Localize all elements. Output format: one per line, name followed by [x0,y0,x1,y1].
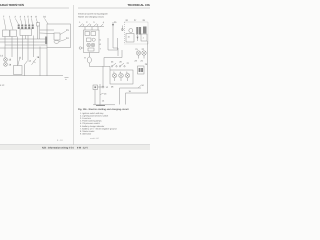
ground bar [96,104,105,106]
switch S1 [25,60,32,76]
callout 6 [31,16,33,25]
diode D3 [137,35,139,41]
control unit box E [47,24,71,48]
fuse F4 [28,25,30,30]
wire v5b [24,36,26,40]
wire v3 [17,37,19,66]
inner gauge box [87,38,92,42]
wire mid elbow [102,66,104,87]
drop wire d3 [97,27,99,31]
battery feed vertical [99,84,101,105]
diode D2 [112,21,117,28]
instrument cluster box [84,30,100,53]
wire v4 [22,36,24,61]
center page divider [73,5,75,145]
regulator box [126,34,134,43]
connector strip on E [45,37,47,45]
fuse block C [20,29,32,36]
drop wire d2 [91,27,93,31]
callout 10 [43,16,48,24]
connector box D [37,23,40,27]
fuse F1 [18,25,20,30]
wire into F upper [40,29,54,31]
ground bus bottom [0,75,63,77]
ground baseline [93,104,115,106]
svg-text:7. Battery 12 V - 60 Ah negat: 7. Battery 12 V - 60 Ah negative ground [80,127,117,130]
svg-text:3. Fuse box: 3. Fuse box [80,117,92,120]
switch S2 [32,56,40,65]
toggle switch T2 [119,61,125,67]
wire elbow from feed [113,48,118,56]
feed vertical from diode [112,28,114,48]
wire D drop 2 [38,26,40,39]
callout 5 [27,16,29,25]
lamp P2 [142,48,147,59]
cluster lamp 3 [125,71,130,81]
wire D drop 1 [36,26,38,39]
battery callout 11 [18,56,22,65]
switch S5 [93,21,98,27]
svg-text:Fig. 136 - Electric starting a: Fig. 136 - Electric starting and chargin… [78,108,129,111]
svg-text:9. Alternator: 9. Alternator [80,133,92,136]
wire bus h2 [0,41,47,43]
wire loop inner [126,93,149,105]
wire v7 [39,47,41,76]
brush terminal [121,26,123,32]
fuse F2 [21,25,23,30]
lamp L2 [4,63,8,67]
wire U loop [108,38,118,50]
callout 1 [9,16,13,30]
callout 3 [20,16,22,25]
svg-text:Starter and charging circuits: Starter and charging circuits [78,15,104,18]
solenoid box [93,85,98,90]
warning lamp L4 [91,43,95,47]
fuse F3 [25,25,27,30]
wire v6 [33,36,35,58]
svg-text:9 - 10: 9 - 10 [57,139,63,142]
svg-text:9 W : 12 V: 9 W : 12 V [77,146,88,149]
page header right rule [78,7,150,9]
relay box A [3,30,10,37]
callout 4 [24,16,26,25]
stator cell 2 [139,27,141,35]
switch S4 [86,21,91,27]
svg-text:HARACTERISTICS: HARACTERISTICS [0,3,24,7]
page header left rule [0,7,69,9]
wire loop outer [120,88,142,105]
relay box R [138,63,148,74]
wire sender down [89,63,110,66]
wire bus h1 [0,38,47,40]
aux box [141,34,147,41]
cluster lamp 1 [112,71,117,81]
svg-text:Electrical system wiring diagr: Electrical system wiring diagram [78,13,108,16]
wire into F lower [40,32,54,35]
callout 7 [3,16,6,30]
rectifier block [143,27,147,34]
node circle [102,86,104,88]
drop wire d1 [84,27,86,31]
callout 8 [35,16,37,23]
svg-text:5. Oil pressure switch: 5. Oil pressure switch [80,122,101,125]
node a label [65,77,69,81]
inner box K [88,48,94,51]
svg-text:8. Starter motor: 8. Starter motor [80,130,95,133]
dashed alternator box [125,22,149,44]
wire v1 [4,37,6,58]
wire elbow low [104,50,122,66]
wire solenoid to feed [98,86,103,88]
wire bus h4 [0,47,47,49]
svg-text:model 450: model 450 [90,137,99,140]
wire v8 [46,48,48,76]
wire bus h3 [5,44,47,46]
svg-text:4. Panel warning lamps: 4. Panel warning lamps [80,120,102,123]
lamp cluster box [110,70,133,84]
wire into cluster [109,66,111,70]
callout 23 [60,29,69,35]
svg-text:1. Ignition switch with key: 1. Ignition switch with key [80,112,104,115]
callout bubble 6 [79,47,83,49]
svg-text:6. Battery charge indicator: 6. Battery charge indicator [80,125,105,128]
battery B1 [14,66,23,75]
svg-text:2. Lighting and services swit: 2. Lighting and services switch [80,114,109,117]
callout 13 [100,93,107,96]
loop callout 16 [138,84,145,88]
svg-text:TECHNICAL CHAR: TECHNICAL CHAR [128,3,151,7]
solenoid drop wire [94,90,96,105]
bottom scan strip [0,145,150,150]
fuse holder 4 [101,21,105,27]
svg-text:N.B : information wiring 4 5 6: N.B : information wiring 4 5 6 [42,146,74,149]
wire v2 [11,37,13,58]
lamp L1 [4,58,8,62]
wire v5 [27,36,29,61]
motor M1 ellipse [54,40,59,43]
inner connector right [91,32,96,36]
rotor circle [129,29,133,33]
relay box B [10,30,17,37]
fuse F5 [32,25,34,30]
inner connector left [85,32,90,36]
switch S3 [79,21,84,27]
callout 24 [59,37,69,41]
toggle switch T1 [111,61,117,67]
warning lamp L3 [87,43,91,47]
inner box F [54,33,60,40]
top wire bus [79,26,105,28]
inner gauge circle [92,38,95,41]
feed vertical right [147,41,149,93]
sender unit 8 [84,53,91,64]
callout 2 [15,16,19,25]
lamp P1 [135,48,140,59]
cluster lamp 2 [119,71,124,81]
stator cell 1 [136,27,138,35]
